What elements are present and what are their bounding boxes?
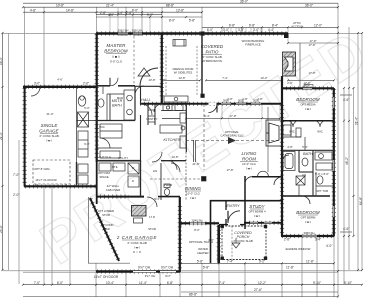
svg-text:DINING: DINING (185, 186, 201, 191)
svg-text:46'-2": 46'-2" (345, 157, 349, 165)
svg-text:9'-10": 9'-10" (313, 281, 321, 285)
svg-text:◊ ■ ◊: ◊ ■ ◊ (305, 107, 312, 111)
svg-text:WIC: WIC (99, 125, 104, 129)
svg-text:2 CAR GARAGE: 2 CAR GARAGE (116, 235, 157, 240)
svg-text:5'-4": 5'-4" (154, 197, 160, 201)
svg-text:WIC: WIC (317, 130, 322, 134)
svg-text:ENTRY: ENTRY (226, 204, 240, 208)
svg-text:6'-8": 6'-8" (84, 142, 90, 146)
svg-text:UTIL: UTIL (112, 165, 119, 169)
svg-text:8'-4": 8'-4" (272, 24, 278, 28)
svg-text:ROOM: ROOM (242, 157, 256, 162)
svg-text:◊ ■ ◊: ◊ ■ ◊ (190, 196, 197, 200)
svg-text:BATH: BATH (112, 103, 122, 107)
svg-text:8'-0": 8'-0" (194, 228, 200, 232)
svg-text:3'-4": 3'-4" (117, 11, 123, 15)
svg-text:21'-0": 21'-0" (46, 112, 53, 116)
svg-text:7'-4": 7'-4" (222, 76, 228, 80)
svg-text:3050: 3050 (238, 99, 245, 103)
svg-text:◊ ■ ◊: ◊ ■ ◊ (246, 167, 253, 171)
svg-text:9'x7': 9'x7' (165, 274, 171, 278)
svg-text:W/ SIDELITES: W/ SIDELITES (174, 71, 193, 75)
svg-text:WIC: WIC (289, 130, 294, 134)
svg-text:CATHEDRAL CLG: CATHEDRAL CLG (220, 134, 243, 138)
svg-text:◊ ■ ◊: ◊ ■ ◊ (305, 220, 312, 224)
svg-text:4" CONC SLAB: 4" CONC SLAB (233, 239, 253, 243)
svg-text:10'-0" CLG: 10'-0" CLG (242, 162, 256, 166)
svg-text:9'-0" CLG: 9'-0" CLG (110, 60, 122, 64)
svg-text:2'-8": 2'-8" (100, 11, 106, 15)
svg-text:COVERED: COVERED (201, 44, 224, 49)
svg-text:LIN: LIN (302, 173, 306, 177)
svg-text:LIVING: LIVING (242, 151, 257, 156)
svg-text:4" CONC SLAB: 4" CONC SLAB (39, 134, 59, 138)
svg-text:3'-0": 3'-0" (253, 28, 259, 32)
svg-text:OPT BDRM 4: OPT BDRM 4 (248, 210, 265, 214)
svg-text:6'-4": 6'-4" (204, 114, 210, 118)
svg-text:16'x7' OH DOOR: 16'x7' OH DOOR (35, 178, 56, 182)
svg-text:17'-8": 17'-8" (309, 39, 316, 43)
svg-text:5'-8": 5'-8" (197, 260, 203, 264)
svg-text:17'-8": 17'-8" (308, 43, 315, 47)
svg-text:13'-8": 13'-8" (178, 76, 185, 80)
svg-text:8'-0": 8'-0" (132, 8, 138, 12)
svg-text:16'-4": 16'-4" (0, 57, 3, 65)
svg-text:6'-8": 6'-8" (229, 24, 235, 28)
svg-text:HALL: HALL (141, 98, 150, 102)
svg-text:OPT TUB: OPT TUB (316, 189, 328, 193)
svg-text:10'-8": 10'-8" (56, 3, 64, 7)
svg-text:10'-8": 10'-8" (171, 155, 178, 159)
svg-text:◊ ■ ◊: ◊ ■ ◊ (46, 139, 53, 143)
svg-text:▲ □ ▲: ▲ □ ▲ (133, 250, 142, 254)
svg-text:6'-8": 6'-8" (249, 24, 255, 28)
svg-text:25'-0": 25'-0" (0, 225, 3, 233)
svg-text:21'-4": 21'-4" (106, 3, 114, 7)
svg-text:CAB OVER: CAB OVER (106, 188, 120, 192)
svg-text:5'-10": 5'-10" (344, 281, 352, 285)
svg-text:31'-4": 31'-4" (355, 117, 359, 125)
svg-text:12'-2": 12'-2" (258, 281, 266, 285)
svg-text:4'-8": 4'-8" (30, 8, 36, 12)
svg-text:4'-6": 4'-6" (57, 78, 63, 82)
svg-text:12'-0": 12'-0" (314, 24, 322, 28)
svg-text:7'-4": 7'-4" (227, 260, 233, 264)
svg-text:BEDROOM: BEDROOM (296, 210, 320, 215)
svg-text:3050 SH: 3050 SH (118, 29, 129, 33)
svg-text:21'-4": 21'-4" (0, 132, 3, 140)
svg-text:2040 SH: 2040 SH (192, 219, 203, 223)
svg-text:MUD: MUD (117, 96, 123, 100)
svg-text:17'-8": 17'-8" (226, 168, 233, 172)
svg-text:W: W (132, 166, 135, 170)
svg-text:14'-8": 14'-8" (66, 8, 74, 12)
svg-text:MASTER: MASTER (107, 43, 127, 48)
svg-text:10'-0" CLG: 10'-0" CLG (186, 192, 200, 196)
svg-text:7'-4": 7'-4" (219, 281, 225, 285)
svg-text:6'-0": 6'-0" (57, 281, 63, 285)
svg-text:5'-0": 5'-0" (84, 106, 90, 110)
svg-text:9'-2": 9'-2" (259, 260, 265, 264)
svg-text:GARAGE: GARAGE (39, 129, 58, 134)
svg-text:BEDROOM: BEDROOM (296, 97, 320, 102)
svg-text:9'x7' OH: 9'x7' OH (145, 274, 156, 278)
svg-text:11'-8": 11'-8" (306, 260, 314, 264)
svg-text:3050: 3050 (253, 99, 260, 103)
svg-text:7'-0": 7'-0" (34, 281, 40, 285)
svg-text:5'-8": 5'-8" (203, 266, 209, 270)
svg-text:EGRESS WINDOW: EGRESS WINDOW (286, 247, 311, 251)
svg-text:4'-8": 4'-8" (287, 145, 293, 149)
svg-text:OPT BDRM: OPT BDRM (301, 216, 316, 220)
svg-text:9'x7' OH: 9'x7' OH (161, 266, 174, 270)
svg-text:PANTRY: PANTRY (146, 117, 157, 121)
svg-text:88'-8": 88'-8" (166, 3, 174, 7)
svg-text:PAD: PAD (104, 227, 110, 231)
svg-text:3'-4": 3'-4" (315, 238, 321, 242)
svg-text:SPACE: SPACE (99, 175, 108, 179)
svg-text:10'-4": 10'-4" (106, 281, 114, 285)
svg-text:5'-0" x 8'-0": 5'-0" x 8'-0" (315, 172, 329, 176)
svg-text:STUDY: STUDY (249, 204, 265, 209)
svg-text:STOR: STOR (102, 213, 110, 217)
svg-text:11'-8": 11'-8" (286, 266, 294, 270)
svg-text:6'-8": 6'-8" (167, 281, 173, 285)
svg-text:UTILITY: UTILITY (118, 156, 129, 160)
svg-text:9'-0" CLG: 9'-0" CLG (99, 155, 111, 159)
svg-text:HEATER: HEATER (197, 251, 208, 255)
svg-text:2'-0": 2'-0" (13, 193, 19, 197)
svg-text:3050: 3050 (223, 99, 230, 103)
svg-text:86'-8": 86'-8" (189, 293, 197, 297)
svg-text:9'-0": 9'-0" (147, 13, 153, 17)
svg-text:D: D (132, 179, 134, 183)
svg-text:PATIO: PATIO (205, 50, 219, 55)
svg-text:64'-8": 64'-8" (359, 197, 363, 205)
svg-text:BEDROOM: BEDROOM (104, 49, 128, 54)
svg-text:5'-4": 5'-4" (302, 145, 308, 149)
svg-text:5'-8": 5'-8" (189, 18, 195, 22)
svg-text:17 R: 17 R (149, 215, 155, 219)
svg-text:21'-8": 21'-8" (192, 162, 199, 166)
svg-text:◊ ■ ◊: ◊ ■ ◊ (112, 55, 120, 59)
svg-text:2'-8": 2'-8" (284, 238, 290, 242)
svg-text:8'-0": 8'-0" (169, 18, 175, 22)
svg-text:KITCHEN: KITCHEN (163, 138, 181, 142)
svg-text:4'-6": 4'-6" (343, 227, 349, 231)
svg-text:◊ ■ ◊: ◊ ■ ◊ (254, 214, 261, 218)
svg-text:4'-0": 4'-0" (108, 13, 114, 17)
svg-text:10'-0": 10'-0" (260, 76, 267, 80)
svg-text:9'x7' OH: 9'x7' OH (138, 266, 151, 270)
svg-text:4" CONC SLAB: 4" CONC SLAB (127, 241, 147, 245)
svg-text:W/ BROOM FIN: W/ BROOM FIN (202, 59, 222, 63)
svg-text:4'-0": 4'-0" (326, 244, 332, 248)
svg-text:36'-0": 36'-0" (240, 0, 248, 4)
svg-text:PWDR: PWDR (164, 183, 173, 187)
svg-text:3050 SH: 3050 SH (132, 29, 143, 33)
svg-text:OPT MEDIA: OPT MEDIA (300, 103, 315, 107)
svg-text:FIREPLACE: FIREPLACE (245, 43, 261, 47)
svg-text:27'-6": 27'-6" (254, 288, 262, 292)
svg-text:OPTIONAL TRASH: OPTIONAL TRASH (189, 240, 213, 244)
svg-text:13'-8": 13'-8" (176, 8, 184, 12)
svg-text:4'-4": 4'-4" (268, 28, 274, 32)
svg-text:LIN: LIN (153, 169, 157, 173)
svg-text:STOR: STOR (148, 227, 156, 231)
svg-text:2'-0": 2'-0" (287, 81, 293, 85)
svg-text:OPT 8' GRG: OPT 8' GRG (34, 167, 50, 171)
svg-text:36'-0": 36'-0" (305, 3, 313, 7)
svg-text:16'x7' OH DOOR: 16'x7' OH DOOR (94, 275, 119, 279)
svg-text:13'-8": 13'-8" (148, 78, 155, 82)
svg-text:17'-8": 17'-8" (308, 71, 315, 75)
svg-text:BATH: BATH (303, 152, 313, 156)
svg-text:11'-4": 11'-4" (139, 281, 147, 285)
svg-text:ACCESS: ACCESS (291, 25, 303, 29)
svg-text:3050: 3050 (304, 84, 311, 88)
svg-text:4'-6": 4'-6" (343, 98, 349, 102)
svg-text:3050 SH: 3050 SH (304, 231, 315, 235)
svg-text:17'-8": 17'-8" (229, 114, 236, 118)
svg-text:7'-0": 7'-0" (13, 173, 19, 177)
svg-text:2'-8": 2'-8" (126, 11, 132, 15)
svg-text:SINGLE: SINGLE (41, 123, 58, 128)
